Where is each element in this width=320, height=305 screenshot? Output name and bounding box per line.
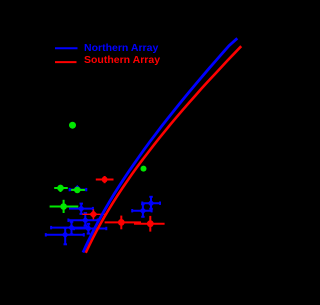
svg-text:Northern Array: Northern Array	[84, 42, 158, 54]
point G1	[69, 122, 76, 129]
point R3	[134, 216, 165, 232]
point R2	[105, 216, 141, 230]
point B6	[69, 204, 93, 214]
legend line Southern Array	[55, 61, 77, 63]
blue curve Northern Array	[83, 38, 237, 252]
point R4 diamond	[82, 209, 106, 219]
point B8	[132, 204, 151, 217]
point B1 under green G4	[70, 185, 87, 193]
point G5	[50, 200, 79, 213]
point B7	[142, 197, 160, 209]
blue data points (diamonds with capped error bars)	[46, 185, 160, 244]
point R1	[96, 176, 114, 183]
red data points	[82, 176, 164, 232]
point B5	[46, 228, 84, 245]
legend line Northern Array	[55, 47, 78, 49]
point B4	[74, 224, 106, 234]
point G2	[141, 166, 147, 172]
point G4	[71, 187, 85, 194]
svg-text:Southern Array: Southern Array	[84, 54, 160, 66]
point B3	[51, 222, 87, 235]
green data points (circles)	[50, 122, 147, 213]
red curve Southern Array	[86, 46, 242, 253]
point G3	[54, 185, 68, 192]
point B2	[68, 213, 97, 226]
